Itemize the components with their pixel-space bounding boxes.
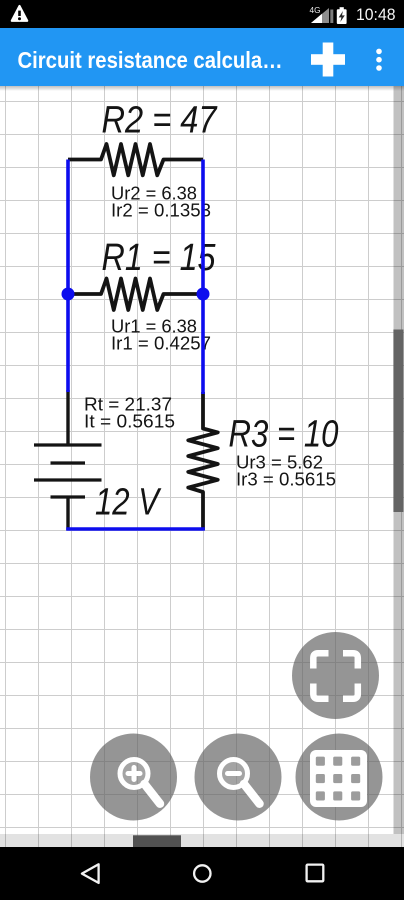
status signal triangle: [311, 8, 329, 23]
scrollbar vertical thumb: [393, 330, 403, 513]
button zoom in: [90, 734, 177, 821]
status warning icon: [12, 6, 27, 21]
node left junction: [62, 288, 75, 301]
node right junction: [197, 288, 210, 301]
wire right vertical: [201, 160, 205, 395]
svg-text:R3 = 10: R3 = 10: [229, 414, 339, 456]
battery B1 leads: [66, 390, 69, 530]
button fullscreen: [292, 632, 379, 719]
scrollbar horizontal thumb: [133, 835, 181, 847]
svg-text:Circuit resistance calcula…: Circuit resistance calcula…: [18, 47, 283, 73]
nav recents: [307, 865, 324, 882]
resistor R2: [68, 144, 203, 175]
svg-text:12 V: 12 V: [95, 482, 162, 524]
app bar plus icon: [311, 54, 345, 65]
svg-text:Ir3 = 0.5615: Ir3 = 0.5615: [236, 469, 336, 490]
wire bottom: [66, 527, 205, 531]
app bar: [0, 28, 404, 86]
battery B1 plates: [34, 445, 102, 497]
resistor R1: [68, 279, 203, 311]
navigation bar: [0, 847, 404, 900]
button zoom out: [195, 734, 282, 821]
scrollbar vertical track: [394, 86, 404, 834]
svg-text:R1 = 15: R1 = 15: [102, 237, 217, 279]
svg-text:4G: 4G: [310, 6, 321, 15]
button keypad: [296, 734, 383, 821]
svg-text:R2 = 47: R2 = 47: [102, 100, 219, 142]
resistor R3: [188, 392, 218, 530]
app bar overflow menu: [376, 49, 382, 55]
status battery: [340, 7, 344, 10]
status secondary bar: [330, 10, 333, 24]
svg-text:Ir1 = 0.4257: Ir1 = 0.4257: [111, 333, 211, 354]
nav back: [82, 864, 99, 883]
nav home: [194, 865, 210, 881]
scrollbar horizontal track: [0, 834, 404, 847]
status bar: [0, 0, 404, 28]
wire left vertical: [66, 160, 70, 393]
svg-text:Ir2 = 0.1353: Ir2 = 0.1353: [111, 200, 211, 221]
svg-text:It = 0.5615: It = 0.5615: [84, 411, 175, 432]
svg-text:10:48: 10:48: [356, 6, 396, 24]
